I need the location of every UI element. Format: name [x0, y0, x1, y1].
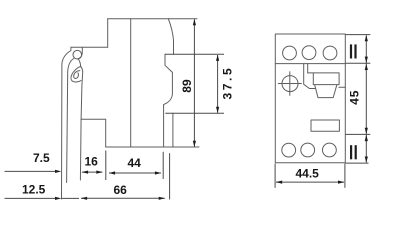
front lower step [81, 119, 106, 147]
arrow 66 right [159, 197, 165, 200]
label 11 bottom [350, 145, 352, 159]
arrow 12.5 [55, 197, 61, 200]
svg-text:66: 66 [114, 183, 128, 197]
handle inner front line [67, 59, 74, 183]
reset window rect [311, 120, 339, 131]
leader 7.5 [5, 170, 57, 172]
rocker trapezoid [315, 85, 337, 98]
arrow 16 left [82, 171, 88, 174]
cross screw circle [282, 76, 298, 92]
bottom terminal circle 2 [301, 143, 315, 157]
ext line 66 right [169, 153, 171, 199]
dim line 16 [82, 171, 102, 173]
svg-text:37.5: 37.5 [220, 66, 234, 100]
arrow 11bot down [365, 157, 368, 163]
dim line 44 [109, 172, 161, 174]
rear top chamfer [168, 19, 173, 55]
grip teardrop [71, 67, 81, 82]
knob circle [73, 50, 82, 59]
knob to grip connector [78, 59, 81, 67]
arrow 37.5 up [216, 55, 219, 61]
ext line 44.5 left [274, 164, 276, 188]
rocker bar [308, 73, 339, 85]
arrow 11top up [365, 35, 368, 41]
arrow 37.5 down [216, 107, 219, 113]
cross screw hline [278, 83, 301, 85]
bottom terminal circle 1 [282, 143, 296, 157]
svg-text:12.5: 12.5 [22, 183, 46, 197]
top terminal circle 3 [323, 46, 337, 60]
right dim line [365, 35, 367, 162]
latch tick [78, 47, 82, 59]
rear rail notch [164, 54, 173, 147]
side view top line [108, 18, 197, 20]
bottom line [106, 146, 199, 148]
arrow 11top down [365, 57, 368, 63]
svg-text:45: 45 [347, 90, 361, 105]
dim line 44.5 [276, 181, 344, 183]
right ext line bottom [346, 162, 369, 164]
ext line 37.5 bottom [165, 112, 224, 114]
arrow 44 right [155, 171, 161, 174]
body front vertical [130, 19, 132, 147]
ext line 44 right [162, 152, 164, 179]
leader 12.5 [5, 197, 80, 199]
arrow 45 up [365, 64, 368, 70]
rear foot edge [172, 113, 174, 146]
right ext line top [346, 34, 371, 36]
svg-text:7.5: 7.5 [33, 151, 50, 165]
ext line 44.5 right [344, 164, 346, 188]
arrow 7.5 [55, 170, 61, 173]
right ext line upper mid [346, 62, 371, 64]
bottom terminal circle 3 [323, 143, 337, 157]
dim line 66 [81, 197, 165, 199]
top terminal circle 2 [302, 46, 316, 60]
front view outline [275, 34, 345, 163]
dim line 37.5 [217, 55, 219, 113]
handle right edge [80, 67, 82, 181]
side view left upper vertical [107, 19, 109, 48]
svg-text:89: 89 [180, 79, 194, 93]
arrow 66 left [81, 197, 87, 200]
arrow 89 up [193, 19, 196, 25]
arrow 16 right [96, 171, 102, 174]
svg-text:16: 16 [85, 154, 99, 168]
step line above handle [71, 46, 108, 48]
rocker channel [304, 64, 316, 89]
label 11 top [350, 44, 352, 58]
grip inner hook [74, 71, 80, 79]
svg-text:44: 44 [128, 156, 142, 170]
arrow 44.5 right [338, 181, 344, 184]
right ext line lower mid [346, 133, 371, 135]
svg-text:44.5: 44.5 [296, 167, 320, 181]
dim line 89 [193, 19, 195, 146]
arrow 44.5 left [276, 181, 282, 184]
handle outer front curve [62, 47, 71, 199]
arrow 89 down [193, 141, 196, 147]
top terminal circle 1 [283, 46, 297, 60]
rocker right connector [339, 86, 345, 88]
ext line 37.5 top [165, 53, 224, 55]
ext line 16 right [105, 151, 107, 181]
arrow 44 left [109, 171, 115, 174]
arrow 11bot up [365, 135, 368, 141]
cross screw vline [289, 72, 291, 96]
arrow 45 down [365, 128, 368, 134]
front top separator [275, 63, 345, 65]
